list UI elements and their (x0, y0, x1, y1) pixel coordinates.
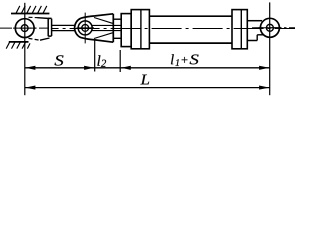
clevis top edge (dashed hidden part) (29, 16, 39, 18)
rod-end eye crosshair horizontal (77, 27, 95, 29)
rod-end eye inner circle (82, 25, 89, 32)
rear cap (232, 10, 247, 49)
clevis top edge solid (38, 17, 50, 20)
clevis bottom edge (dashed hidden part) (29, 38, 41, 40)
pin P1 crosshair horizontal (13, 27, 37, 29)
cylinder barrel bottom edge (149, 42, 232, 44)
label glyph l1l (l) (171, 54, 174, 64)
tongue bottom line (247, 40, 257, 42)
rod-end cone inner slant top (94, 18, 113, 24)
rear cap divider (240, 10, 242, 49)
arrow S left (25, 66, 35, 70)
ground line top-left (11, 13, 49, 15)
rod-end eye outer bell profile (75, 14, 114, 42)
hatch above top ground line (16, 6, 47, 13)
piston rod top line (52, 24, 76, 26)
dimension line row1 (25, 67, 270, 69)
tongue lower edge to eye (257, 34, 264, 36)
arrow l1S left (121, 66, 131, 70)
label glyph plus (+) (182, 57, 188, 63)
rear eye crosshair horizontal (259, 27, 282, 29)
label glyph S2 (S) (190, 55, 199, 65)
neck bottom line (113, 37, 121, 39)
extension line x3 (head left) (119, 50, 121, 72)
neck top line (113, 18, 121, 20)
label glyph l2s (2) (101, 60, 106, 67)
tongue top line (247, 20, 262, 22)
label glyph L1 (L) (140, 75, 149, 85)
tongue step vertical (256, 35, 258, 41)
cylinder barrel top edge (149, 15, 232, 17)
rod hidden line top through bell (92, 24, 121, 26)
rear eye outer circle (260, 18, 279, 37)
rod-end bell right edge (112, 14, 114, 42)
pin P1 vertical center line / extension line (24, 3, 26, 95)
clevis end plate (48, 18, 51, 36)
arrow L left (25, 86, 35, 90)
rear eye inner circle (266, 24, 273, 31)
rod-end cone inner slant bottom (94, 33, 113, 39)
arrow S right (84, 66, 94, 70)
pin P1 inner circle (21, 25, 28, 32)
clevis bottom edge solid (40, 38, 50, 40)
arrow L right (259, 86, 269, 90)
rod-end eye vertical center line (84, 13, 86, 44)
label glyph l2l (l) (97, 55, 100, 65)
rod-end eye mid circle (78, 21, 92, 35)
rod hidden line bottom through bell (92, 30, 121, 32)
rear eye horizontal center line (252, 27, 295, 29)
head plate A (121, 14, 131, 47)
label glyph l1s (1) (175, 59, 179, 66)
label glyph S1 (S) (55, 55, 64, 65)
extension line x2 (bell corner) (94, 40, 96, 71)
arrow l1S right (259, 66, 269, 70)
ground line bottom-left (9, 41, 29, 43)
dimension line row2 L (25, 87, 270, 89)
axis center line rod/cylinder (52, 28, 295, 30)
hatch below bottom ground line (6, 42, 30, 48)
piston rod bottom line (52, 30, 76, 32)
head plate B (131, 10, 149, 49)
axis center line (0, 27, 49, 29)
pin P1 outer circle (15, 19, 34, 38)
rear eye vertical center line / extension line (269, 2, 271, 95)
head plate B divider (140, 10, 142, 49)
